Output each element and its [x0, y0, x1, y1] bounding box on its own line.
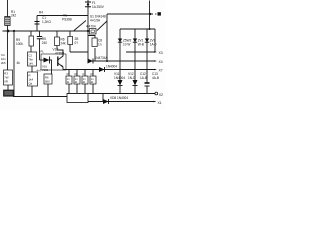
wire H1 top line: [37, 15, 88, 17]
wire right top rail: [149, 1, 151, 30]
wire corner X3: [154, 29, 156, 52]
svg-text:PL: PL: [41, 50, 45, 54]
zener Z3: [145, 39, 149, 43]
box R11: [28, 72, 38, 97]
diode V13: [103, 94, 128, 105]
capacitor col x41.5: [37, 31, 42, 60]
wire H6 X4 line: [88, 60, 154, 62]
box C2: [28, 52, 37, 72]
svg-text:1A 250V: 1A 250V: [92, 5, 105, 9]
svg-text:C6: C6: [74, 72, 78, 76]
node B: [13, 30, 15, 32]
node x107 H6: [106, 60, 108, 62]
node F: [87, 30, 89, 32]
node H4 x149: [149, 28, 151, 30]
zener Z2: [133, 39, 137, 43]
wire right rail x120: [119, 29, 121, 80]
wire right rail x135: [134, 29, 136, 80]
svg-text:7396: 7396: [42, 68, 49, 72]
svg-text:1A-B: 1A-B: [140, 76, 147, 80]
diode V11: [114, 72, 125, 94]
svg-text:VD8 1N4004: VD8 1N4004: [110, 96, 128, 100]
resistor R8 col x70: [68, 31, 88, 52]
fuse F1: [85, 0, 105, 61]
svg-text:0R: 0R: [4, 80, 8, 84]
wire right rail x147: [146, 29, 148, 83]
diode V9: [88, 56, 109, 64]
svg-text:4,4704: 4,4704: [86, 25, 96, 29]
wire bottom bus L: [13, 96, 67, 98]
resistor R7a col x57: [42, 31, 66, 56]
phototransistor: [57, 57, 59, 67]
svg-text:2k5: 2k5: [1, 61, 6, 65]
box C10: [88, 36, 102, 62]
wire terminal line H2: [107, 13, 153, 15]
wire H7 X7 line: [63, 69, 154, 71]
box R3: [4, 70, 13, 90]
svg-text:1N4004: 1N4004: [106, 65, 117, 69]
wire switch rail x107: [106, 14, 108, 61]
svg-text:2k2: 2k2: [11, 14, 16, 18]
svg-text:1n: 1n: [98, 43, 102, 47]
resistor R3b block: [4, 90, 14, 96]
svg-text:1N4004: 1N4004: [114, 76, 125, 80]
diode V12: [128, 72, 138, 94]
svg-text:X1: X1: [158, 101, 162, 105]
wire top-left vertical: [7, 0, 9, 17]
svg-text:R4: R4: [39, 11, 43, 15]
svg-text:X3: X3: [159, 51, 163, 55]
svg-text:1A-0: 1A-0: [150, 43, 157, 47]
capacitor bank C5-C8: [66, 70, 72, 94]
svg-text:560: 560: [45, 80, 50, 84]
node A: [7, 30, 10, 33]
svg-text:100k: 100k: [16, 42, 23, 46]
shunt box R0: [67, 94, 88, 103]
resistor 560 box: [44, 74, 52, 97]
svg-text:240: 240: [42, 41, 47, 45]
svg-text:C5: C5: [66, 72, 70, 76]
switch S1b: [97, 21, 107, 31]
wire bus A bottom: [67, 93, 155, 95]
svg-text:0?: 0?: [75, 41, 79, 45]
optocoupler U1: [40, 48, 67, 75]
svg-text:4k: 4k: [17, 61, 21, 65]
wire v1 lower: [7, 31, 9, 70]
svg-text:24k: 24k: [61, 42, 66, 46]
wire v4: [36, 16, 38, 32]
svg-text:X7: X7: [159, 69, 163, 73]
wire R1 to bus: [7, 26, 9, 32]
node top right: [149, 13, 151, 15]
svg-text:C9: C9: [90, 72, 94, 76]
svg-text:10 W: 10 W: [123, 43, 130, 47]
svg-text:C7: C7: [82, 72, 86, 76]
box K1 on bus: [90, 29, 97, 35]
svg-text:PS30B: PS30B: [62, 18, 72, 22]
svg-text:W-B: W-B: [138, 43, 144, 47]
wire bus B X1 line: [88, 101, 154, 103]
svg-text:1N4734A: 1N4734A: [95, 56, 109, 60]
svg-text:4A-B: 4A-B: [152, 76, 159, 80]
svg-text:Qa: Qa: [29, 82, 33, 86]
resistor R1: [5, 10, 17, 26]
svg-text:1kV: 1kV: [28, 62, 33, 66]
wire H5 X3 line: [126, 51, 154, 53]
svg-text:1N-D: 1N-D: [128, 76, 136, 80]
wire left rail v2: [13, 31, 15, 97]
terminal X8: [155, 12, 161, 15]
svg-text:X2: X2: [159, 93, 163, 97]
capacitor C1: [35, 16, 52, 24]
zener Z1: [118, 39, 122, 43]
wire bus H3: [3, 30, 97, 32]
svg-text:X4: X4: [159, 60, 163, 64]
wire bus H4: [120, 28, 155, 30]
LED: [40, 59, 44, 61]
capacitor C12: [140, 72, 150, 94]
svg-text:1,2KΩ: 1,2KΩ: [42, 20, 51, 24]
switch S1a: [74, 21, 86, 31]
svg-text:4×0,5A: 4×0,5A: [90, 19, 101, 23]
resistor col x31: [29, 31, 34, 52]
terminal X2: [155, 92, 158, 95]
diode V10: [99, 65, 117, 73]
